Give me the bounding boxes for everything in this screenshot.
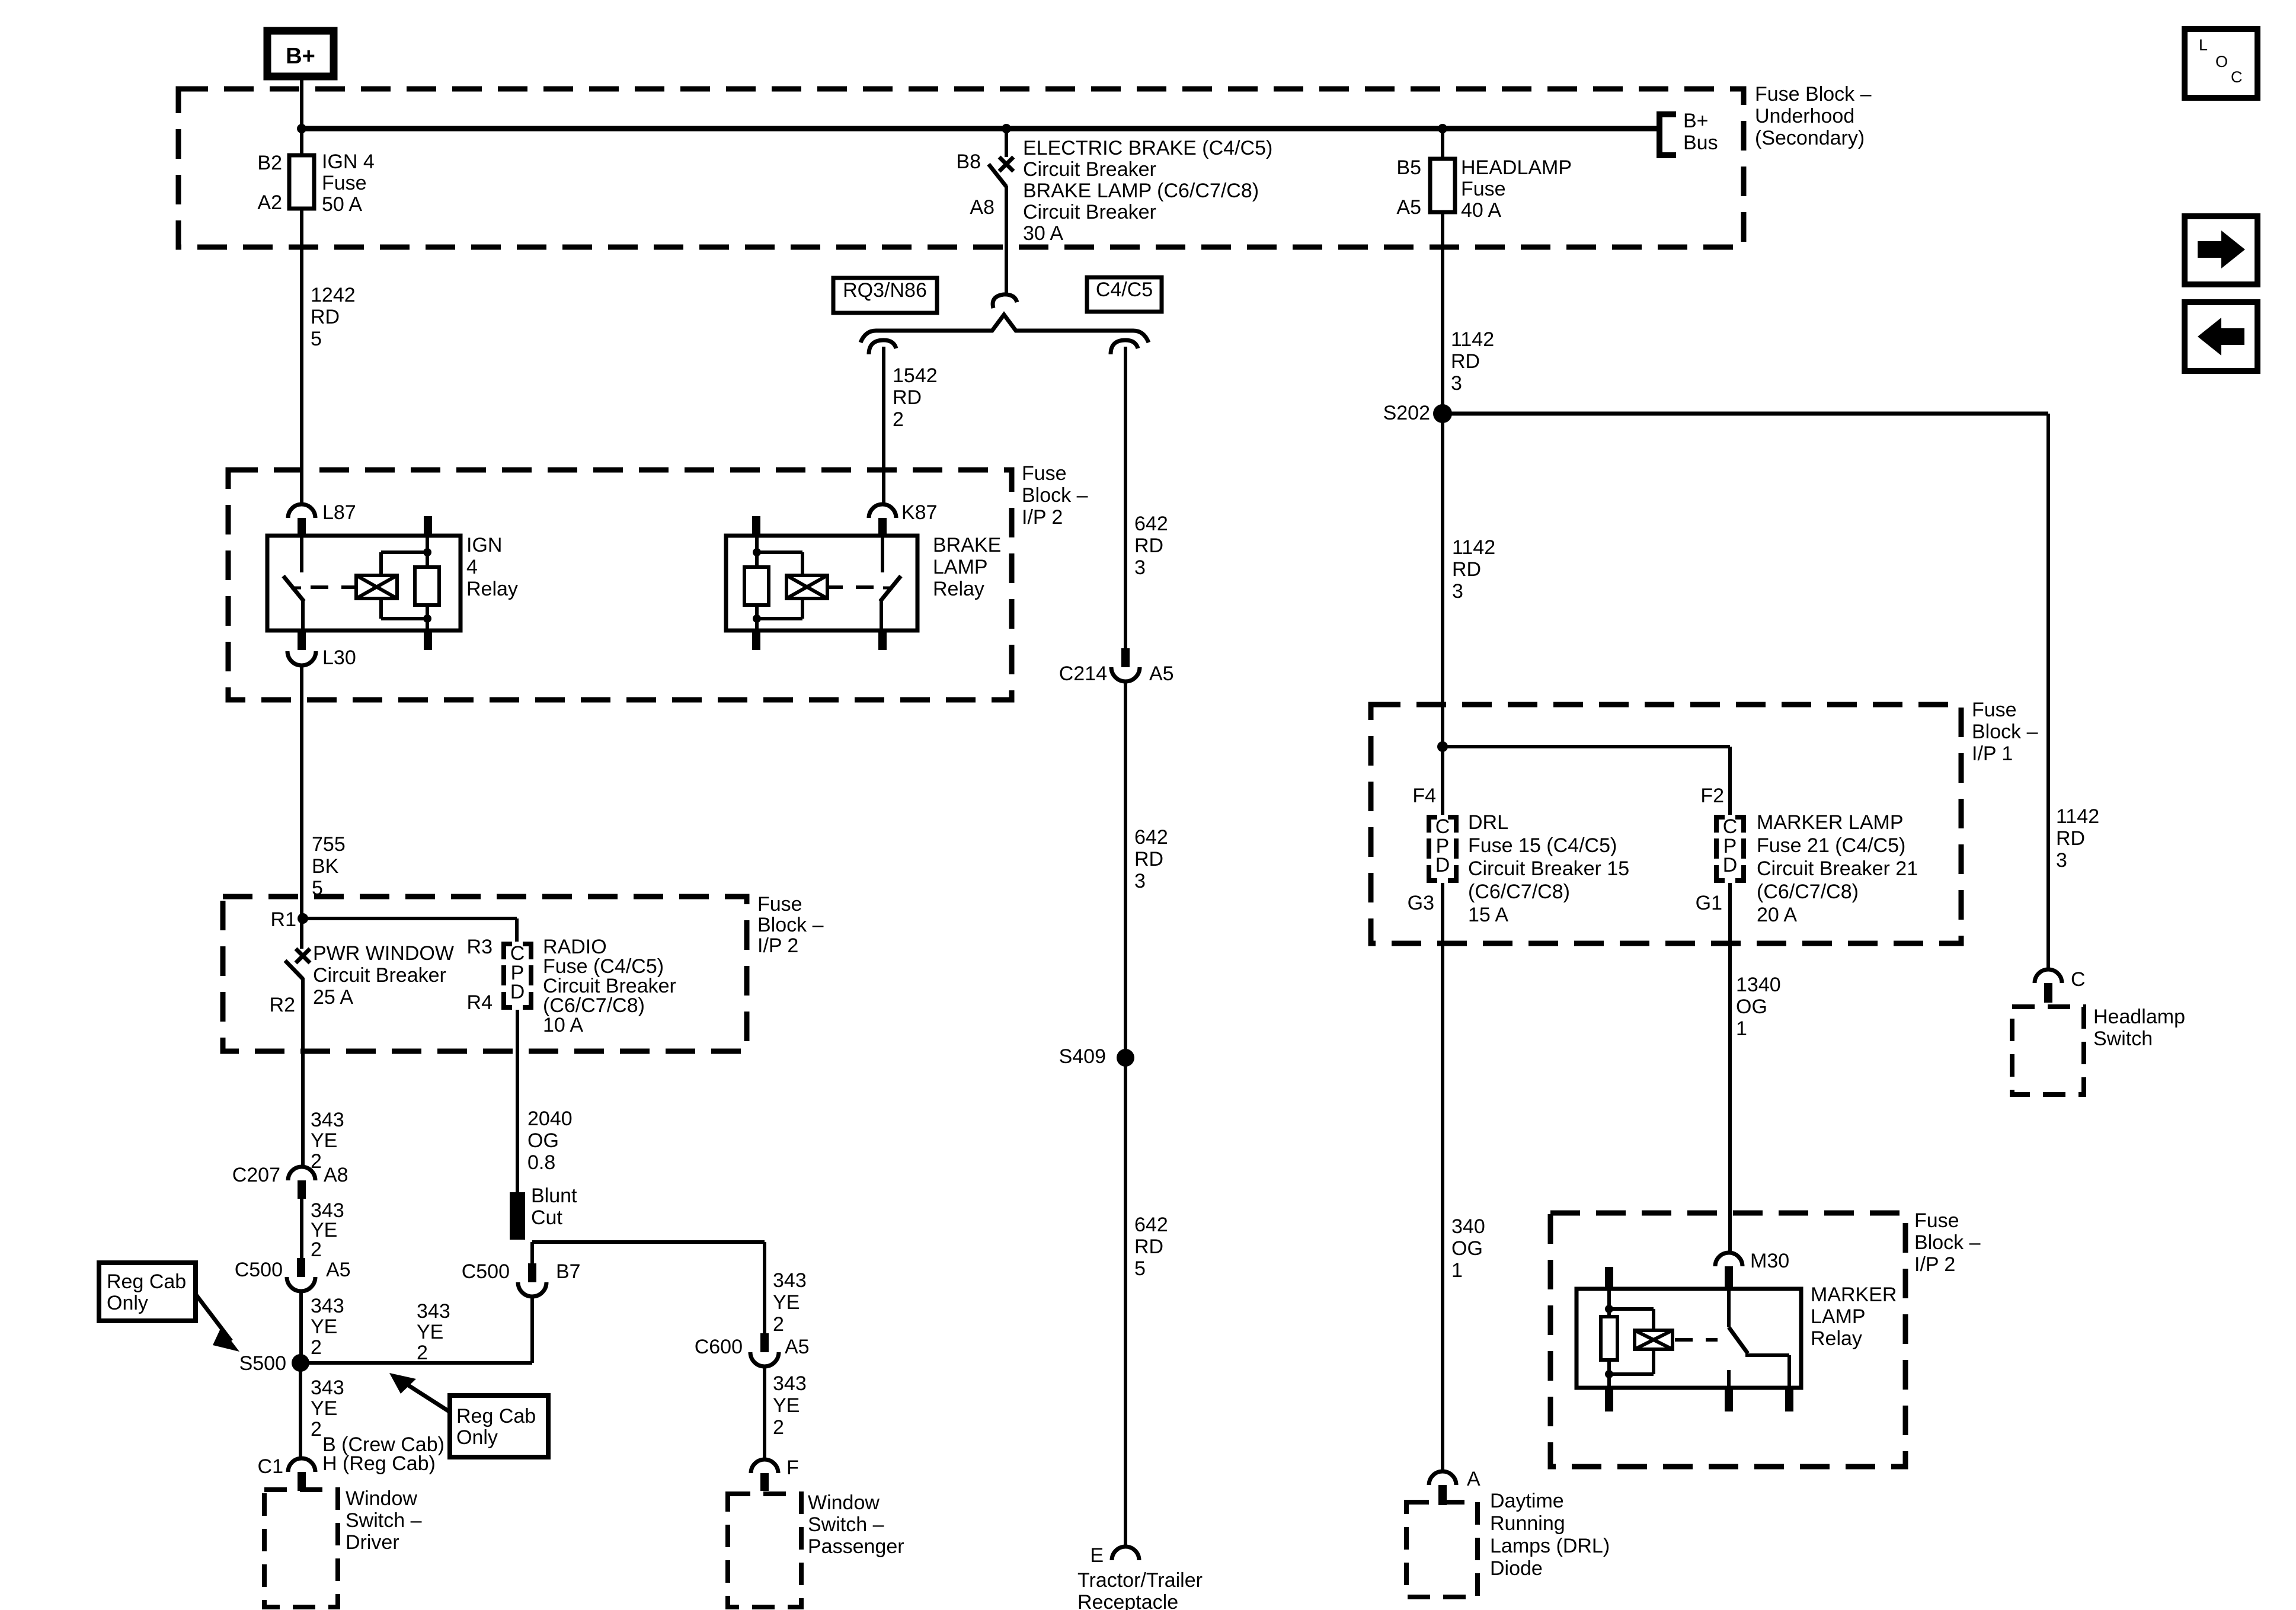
svg-text:S202: S202 [1383,402,1430,424]
svg-text:R1: R1 [271,908,296,931]
svg-text:3: 3 [2056,849,2067,872]
svg-text:HEADLAMP: HEADLAMP [1461,156,1572,179]
svg-text:B5: B5 [1396,156,1421,179]
svg-text:1142: 1142 [2056,805,2099,828]
svg-text:G3: G3 [1408,892,1434,914]
svg-text:M30: M30 [1750,1250,1789,1272]
svg-text:C214: C214 [1059,662,1107,685]
svg-text:1142: 1142 [1452,536,1495,559]
svg-text:B+: B+ [1683,110,1709,132]
svg-text:(C6/C7/C8): (C6/C7/C8) [1468,881,1570,903]
svg-text:Underhood: Underhood [1755,105,1854,127]
svg-text:L87: L87 [322,501,356,524]
svg-text:Reg Cab: Reg Cab [456,1405,536,1427]
svg-text:Circuit Breaker: Circuit Breaker [1023,158,1156,181]
svg-text:343: 343 [773,1269,807,1292]
svg-text:343: 343 [311,1109,344,1131]
svg-text:I/P 1: I/P 1 [1972,742,2013,765]
svg-text:D: D [1723,854,1738,876]
svg-text:1: 1 [1451,1259,1463,1282]
svg-text:A5: A5 [1396,196,1421,219]
svg-text:Fuse: Fuse [757,893,802,916]
svg-text:642: 642 [1134,1214,1168,1236]
svg-text:I/P 2: I/P 2 [1022,506,1063,529]
svg-text:LAMP: LAMP [933,556,988,578]
svg-text:Fuse: Fuse [1022,462,1067,485]
svg-text:(C6/C7/C8): (C6/C7/C8) [1757,881,1859,903]
svg-text:Running: Running [1490,1512,1565,1535]
svg-text:Reg Cab: Reg Cab [107,1270,186,1293]
svg-text:S500: S500 [239,1352,286,1375]
svg-text:R2: R2 [270,994,295,1016]
svg-text:2: 2 [311,1336,322,1359]
svg-text:5: 5 [311,328,322,350]
svg-text:A: A [1467,1468,1480,1490]
svg-text:1242: 1242 [311,284,356,306]
svg-text:343: 343 [311,1377,344,1399]
svg-text:G1: G1 [1696,892,1722,914]
svg-text:YE: YE [311,1129,337,1152]
svg-text:A8: A8 [324,1164,348,1186]
svg-text:A5: A5 [785,1336,810,1358]
svg-text:Switch: Switch [2093,1028,2153,1050]
svg-text:A5: A5 [326,1259,351,1281]
svg-text:B2: B2 [257,152,282,174]
svg-text:30 A: 30 A [1023,222,1063,245]
svg-text:K87: K87 [901,501,938,524]
svg-text:C: C [2231,68,2243,86]
svg-text:10 A: 10 A [543,1014,583,1036]
svg-text:Only: Only [107,1292,148,1314]
svg-text:OG: OG [1736,996,1767,1018]
svg-text:RD: RD [1134,534,1163,557]
svg-text:O: O [2215,53,2228,71]
svg-text:L: L [2199,36,2208,54]
svg-text:MARKER LAMP: MARKER LAMP [1757,811,1904,834]
svg-text:S409: S409 [1059,1045,1106,1068]
svg-text:25 A: 25 A [313,986,353,1009]
svg-text:B+: B+ [286,44,315,69]
svg-text:YE: YE [311,1315,337,1338]
svg-text:3: 3 [1452,580,1463,603]
svg-text:I/P 2: I/P 2 [1914,1253,1955,1276]
svg-text:2: 2 [417,1342,428,1364]
svg-text:1340: 1340 [1736,974,1781,996]
svg-text:Circuit Breaker 15: Circuit Breaker 15 [1468,857,1629,880]
svg-text:Block –: Block – [757,914,824,936]
svg-text:RD: RD [1451,350,1480,373]
svg-text:50 A: 50 A [322,193,362,216]
svg-text:2: 2 [773,1313,784,1336]
svg-text:Receptacle: Receptacle [1077,1591,1178,1610]
svg-text:DRL: DRL [1468,811,1508,834]
svg-text:OG: OG [1451,1237,1483,1260]
svg-text:LAMP: LAMP [1811,1305,1866,1328]
svg-text:40 A: 40 A [1461,199,1501,222]
svg-text:D: D [510,981,525,1003]
svg-text:Relay: Relay [933,578,984,600]
svg-text:Cut: Cut [531,1206,562,1229]
svg-text:RD: RD [893,386,922,409]
svg-text:C1: C1 [258,1455,283,1478]
svg-text:Window: Window [808,1491,880,1514]
svg-text:Fuse 21 (C4/C5): Fuse 21 (C4/C5) [1757,834,1905,857]
svg-text:343: 343 [773,1372,807,1395]
svg-text:IGN: IGN [466,534,502,556]
svg-text:BRAKE: BRAKE [933,534,1001,556]
svg-text:Bus: Bus [1683,132,1718,154]
svg-text:Diode: Diode [1490,1557,1543,1580]
svg-text:I/P 2: I/P 2 [757,934,798,957]
svg-text:Block –: Block – [1972,721,2038,743]
svg-text:YE: YE [773,1291,800,1314]
svg-text:R4: R4 [467,991,493,1014]
svg-text:2: 2 [311,1238,322,1261]
svg-text:C: C [2071,968,2086,991]
svg-text:642: 642 [1134,826,1168,849]
svg-text:2040: 2040 [527,1108,573,1130]
svg-text:E: E [1090,1544,1104,1567]
svg-text:C600: C600 [695,1336,743,1358]
svg-text:2: 2 [773,1416,784,1439]
svg-text:L30: L30 [322,646,356,669]
svg-text:Switch –: Switch – [346,1509,422,1532]
svg-text:Fuse: Fuse [322,172,367,194]
svg-text:Fuse Block –: Fuse Block – [1755,83,1872,105]
svg-text:Relay: Relay [466,578,518,600]
svg-text:0.8: 0.8 [527,1151,555,1174]
svg-text:BK: BK [312,855,339,878]
svg-text:Fuse 15 (C4/C5): Fuse 15 (C4/C5) [1468,834,1617,857]
svg-text:RQ3/N86: RQ3/N86 [843,279,927,302]
svg-text:1542: 1542 [893,364,938,387]
svg-text:PWR WINDOW: PWR WINDOW [313,942,454,965]
svg-text:R3: R3 [467,936,493,958]
svg-text:RD: RD [1134,1235,1163,1258]
svg-text:OG: OG [527,1129,559,1152]
svg-text:C4/C5: C4/C5 [1096,279,1153,301]
svg-text:1142: 1142 [1451,328,1494,351]
svg-text:YE: YE [311,1397,337,1420]
svg-text:Relay: Relay [1811,1327,1862,1350]
svg-text:YE: YE [417,1321,443,1343]
svg-text:642: 642 [1134,513,1168,535]
svg-text:(Secondary): (Secondary) [1755,127,1865,149]
svg-text:20 A: 20 A [1757,904,1797,926]
svg-text:Tractor/Trailer: Tractor/Trailer [1077,1569,1203,1592]
svg-text:MARKER: MARKER [1811,1283,1897,1306]
svg-text:BRAKE LAMP (C6/C7/C8): BRAKE LAMP (C6/C7/C8) [1023,180,1259,202]
svg-text:F4: F4 [1412,785,1436,807]
svg-text:B8: B8 [956,151,981,173]
svg-text:RD: RD [2056,827,2085,850]
svg-text:YE: YE [773,1394,800,1417]
svg-text:1: 1 [1736,1017,1747,1040]
svg-text:Fuse: Fuse [1972,699,2017,721]
svg-text:755: 755 [312,833,346,856]
svg-text:ELECTRIC BRAKE (C4/C5): ELECTRIC BRAKE (C4/C5) [1023,137,1272,159]
svg-text:C207: C207 [232,1164,280,1186]
svg-text:D: D [1435,854,1450,876]
svg-text:Fuse: Fuse [1914,1209,1959,1232]
svg-text:C500: C500 [235,1259,283,1281]
svg-text:A2: A2 [257,191,282,214]
svg-text:RD: RD [1452,558,1481,581]
svg-text:340: 340 [1451,1215,1485,1238]
svg-text:Daytime: Daytime [1490,1490,1564,1512]
svg-text:H (Reg Cab): H (Reg Cab) [322,1452,436,1475]
svg-text:Circuit Breaker: Circuit Breaker [313,964,446,987]
svg-text:RD: RD [1134,848,1163,870]
svg-text:Passenger: Passenger [808,1535,904,1558]
svg-text:C500: C500 [462,1260,510,1283]
svg-text:15 A: 15 A [1468,904,1508,926]
svg-text:3: 3 [1451,372,1462,395]
svg-text:Blunt: Blunt [531,1185,577,1207]
svg-text:Block –: Block – [1914,1231,1981,1254]
svg-text:343: 343 [311,1295,344,1317]
svg-text:F: F [786,1457,799,1479]
svg-text:3: 3 [1134,870,1146,892]
svg-text:2: 2 [311,1418,322,1441]
svg-text:Circuit Breaker: Circuit Breaker [1023,201,1156,223]
svg-text:3: 3 [1134,556,1146,579]
svg-text:B7: B7 [556,1260,581,1283]
svg-text:A8: A8 [970,196,994,219]
svg-text:Window: Window [346,1487,417,1510]
svg-text:5: 5 [1134,1257,1146,1280]
svg-text:Switch –: Switch – [808,1513,884,1536]
svg-text:Only: Only [456,1426,498,1449]
svg-text:Fuse: Fuse [1461,178,1506,200]
svg-text:IGN 4: IGN 4 [322,151,375,173]
svg-text:Circuit Breaker 21: Circuit Breaker 21 [1757,857,1918,880]
svg-text:2: 2 [893,408,904,431]
svg-text:Headlamp: Headlamp [2093,1006,2185,1028]
svg-text:Driver: Driver [346,1531,399,1554]
svg-text:4: 4 [466,556,478,578]
svg-text:Block –: Block – [1022,484,1088,507]
svg-text:A5: A5 [1149,662,1174,685]
svg-text:F2: F2 [1700,785,1724,807]
svg-text:343: 343 [417,1300,450,1323]
svg-text:Lamps (DRL): Lamps (DRL) [1490,1535,1610,1557]
svg-text:RD: RD [311,306,340,328]
